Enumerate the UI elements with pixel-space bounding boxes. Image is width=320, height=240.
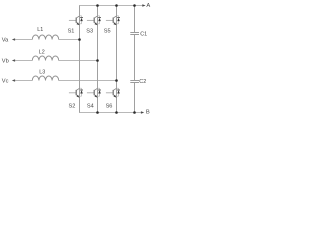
capacitor C1 [130,33,139,35]
svg-text:C2: C2 [139,79,146,85]
junction: leg2 bottom rail [96,111,99,114]
svg-text:C1: C1 [140,31,147,37]
junction: leg3 top rail [115,4,118,7]
svg-text:S6: S6 [106,103,113,109]
inductor L1 [32,35,58,40]
arrow to node A [142,4,145,7]
wire: phase c line [15,80,117,82]
svg-text:L2: L2 [39,49,45,55]
wire: phase b line [15,60,98,62]
junction: leg2 top rail [96,4,99,7]
wire: leg 1 vertical (S1/S2) [79,6,81,113]
svg-text:S1: S1 [68,29,75,35]
transistor S4 [87,88,101,97]
inductor L2 [32,56,58,61]
junction: cap branch top rail [133,4,136,7]
capacitor C2 [130,81,139,83]
junction: cap branch bottom rail [133,111,136,114]
transistor S3 [87,16,101,25]
svg-text:Va: Va [2,37,9,43]
svg-text:S4: S4 [87,103,94,109]
transistor S2 [69,88,83,97]
svg-text:A: A [146,3,150,9]
transistor S1 [69,16,83,25]
svg-text:Vc: Vc [2,78,9,84]
junction: phase a / leg1 [78,38,81,41]
transistor S5 [106,16,120,25]
wire: bottom rail to B [79,112,141,114]
arrow to node B [141,111,144,114]
svg-text:S5: S5 [104,29,111,35]
svg-text:L3: L3 [39,70,45,76]
arrow phase b [12,59,15,62]
wire: capacitor branch vertical [134,6,136,113]
transistor S6 [106,88,120,97]
arrow phase a [12,38,15,41]
junction: phase c / leg3 [115,79,118,82]
svg-text:S2: S2 [68,103,75,109]
wire: phase a line [15,39,80,41]
svg-text:Vb: Vb [2,58,9,64]
wire: top rail to A [79,5,143,7]
svg-text:B: B [146,110,150,116]
svg-text:L1: L1 [37,27,43,33]
wire: leg 3 vertical (S5/S6) [116,6,118,113]
junction: phase b / leg2 [96,59,99,62]
wire: leg 2 vertical (S3/S4) [97,6,99,113]
svg-text:S3: S3 [86,29,93,35]
inductor L3 [32,76,58,81]
junction: leg3 bottom rail [115,111,118,114]
arrow phase c [12,79,15,82]
